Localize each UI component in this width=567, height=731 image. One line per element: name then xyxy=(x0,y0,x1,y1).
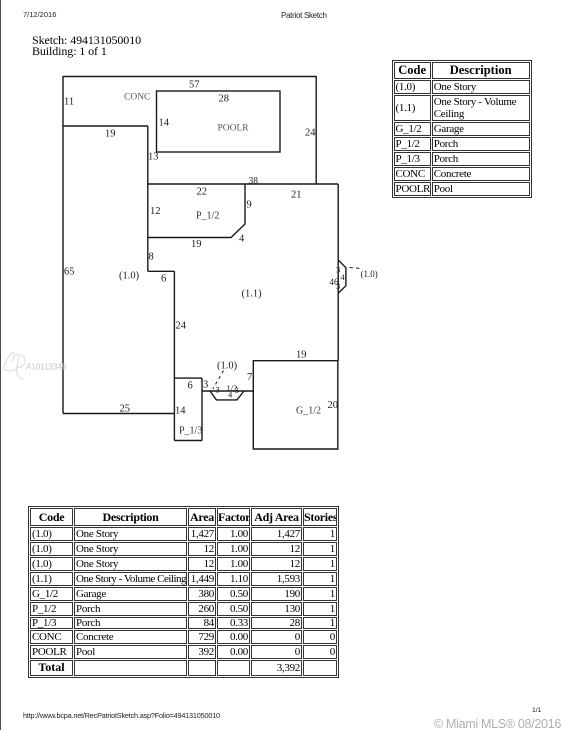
svg-text:POOLR: POOLR xyxy=(218,124,250,134)
svg-text:4: 4 xyxy=(239,234,245,245)
svg-text:21: 21 xyxy=(291,190,302,201)
svg-text:14: 14 xyxy=(175,406,186,417)
svg-text:25: 25 xyxy=(120,404,131,415)
sketch id xyxy=(32,33,141,48)
svg-text:P_1/2: P_1/2 xyxy=(196,211,219,222)
svg-text:19: 19 xyxy=(105,129,116,140)
wall: horiz y378 xyxy=(174,377,202,379)
header title xyxy=(281,11,327,20)
wall: CONC outer right xyxy=(315,76,317,184)
footer url xyxy=(23,711,220,720)
svg-text:CONC: CONC xyxy=(124,93,150,103)
dashed leader right bay xyxy=(350,267,360,270)
svg-text:38: 38 xyxy=(249,177,259,187)
wall: vertical x174 xyxy=(173,271,175,440)
building line xyxy=(32,44,107,59)
left page edge line xyxy=(0,0,1,730)
svg-text:24: 24 xyxy=(305,128,316,139)
pool rectangle POOLR xyxy=(157,91,281,152)
svg-text:3: 3 xyxy=(235,385,239,395)
svg-text:6: 6 xyxy=(161,274,166,285)
svg-text:24: 24 xyxy=(176,321,187,332)
svg-text:19: 19 xyxy=(191,239,202,250)
wall: main top y184 xyxy=(148,183,338,185)
svg-text:46: 46 xyxy=(330,277,340,287)
wall: step at y126 xyxy=(63,125,148,127)
footer watermark xyxy=(434,717,561,731)
svg-text:P_1/3: P_1/3 xyxy=(179,426,202,437)
bay window bottom xyxy=(210,391,244,400)
svg-text:7: 7 xyxy=(247,372,252,383)
svg-text:(1.0): (1.0) xyxy=(217,361,238,372)
LEGEND TABLE xyxy=(392,60,532,198)
wall: horiz y271 xyxy=(148,270,175,272)
svg-text:4: 4 xyxy=(341,272,346,282)
svg-text:(1.1): (1.1) xyxy=(242,289,263,300)
wall: vertical x202 (P_1/3 right) xyxy=(201,378,203,440)
svg-text:20: 20 xyxy=(328,400,339,411)
svg-text:65: 65 xyxy=(64,267,75,278)
svg-text:(1.0): (1.0) xyxy=(361,269,378,279)
svg-text:14: 14 xyxy=(159,118,170,129)
svg-text:11: 11 xyxy=(64,97,74,108)
svg-text:(1.0): (1.0) xyxy=(119,271,140,282)
wall: CONC outer top xyxy=(63,76,316,78)
svg-text:13: 13 xyxy=(148,152,159,163)
svg-text:3: 3 xyxy=(216,385,220,395)
wall: left outer xyxy=(62,76,64,414)
wall: vertical x148 xyxy=(147,126,149,271)
footer page number xyxy=(532,707,541,714)
svg-text:9: 9 xyxy=(247,200,252,211)
porch P_1/2 outline xyxy=(148,184,245,238)
wall: main right x338 xyxy=(337,184,339,361)
svg-text:6: 6 xyxy=(188,381,193,392)
svg-text:3: 3 xyxy=(203,380,208,391)
wall: bottom of left section xyxy=(63,413,174,415)
watermark swirl logo xyxy=(3,352,25,380)
dashed leader bottom bay xyxy=(213,371,224,390)
svg-text:12: 12 xyxy=(150,206,161,217)
bay window right xyxy=(338,260,346,293)
svg-text:8: 8 xyxy=(149,252,154,263)
svg-text:A10113349: A10113349 xyxy=(26,363,67,372)
svg-text:57: 57 xyxy=(189,80,200,91)
svg-text:G_1/2: G_1/2 xyxy=(296,406,321,417)
header date xyxy=(23,10,56,19)
wall: horiz y391 xyxy=(202,390,253,392)
AREA TABLE xyxy=(28,506,339,678)
svg-text:19: 19 xyxy=(296,350,307,361)
svg-text:28: 28 xyxy=(219,94,230,105)
svg-text:22: 22 xyxy=(197,187,208,198)
wall: P_1/3 bottom xyxy=(174,440,202,442)
garage G_1/2 box xyxy=(253,361,337,449)
